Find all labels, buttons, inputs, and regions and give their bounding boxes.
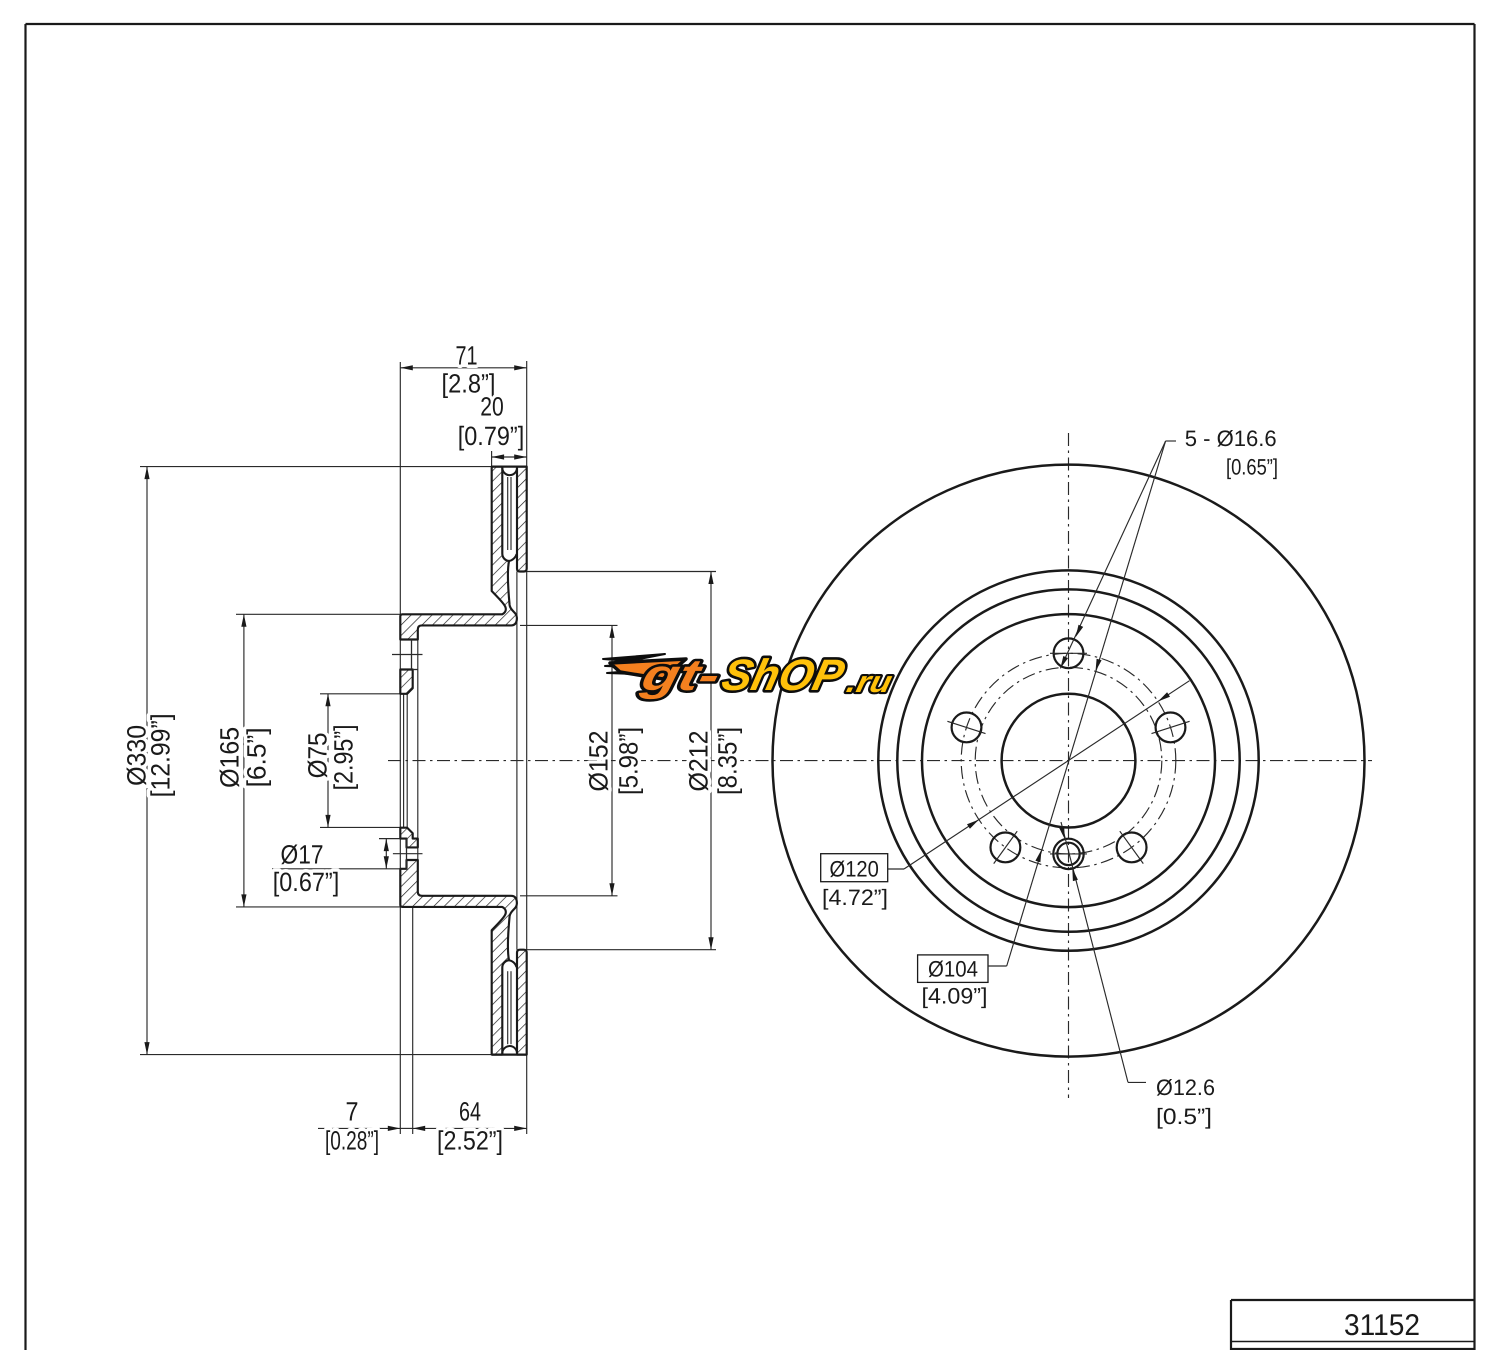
- svg-text:[12.99”]: [12.99”]: [145, 713, 175, 797]
- svg-text:[0.65”]: [0.65”]: [1226, 454, 1278, 479]
- svg-text:5 - Ø16.6: 5 - Ø16.6: [1185, 426, 1277, 451]
- svg-text:[8.35”]: [8.35”]: [712, 727, 742, 795]
- svg-text:Ø120: Ø120: [830, 857, 879, 882]
- svg-text:[0.5”]: [0.5”]: [1156, 1104, 1212, 1129]
- svg-text:[0.79”]: [0.79”]: [458, 421, 525, 451]
- svg-text:[5.98”]: [5.98”]: [613, 727, 643, 795]
- svg-text:Ø152: Ø152: [583, 731, 613, 792]
- svg-text:[4.72”]: [4.72”]: [822, 885, 888, 910]
- svg-text:Ø17: Ø17: [281, 839, 324, 869]
- svg-text:64: 64: [459, 1096, 481, 1126]
- svg-text:Ø12.6: Ø12.6: [1156, 1075, 1215, 1100]
- svg-text:31152: 31152: [1344, 1309, 1420, 1342]
- svg-text:ShOP: ShOP: [717, 651, 849, 700]
- svg-text:gt-: gt-: [636, 651, 725, 700]
- svg-text:[2.95”]: [2.95”]: [328, 724, 358, 790]
- svg-text:7: 7: [346, 1096, 359, 1126]
- svg-text:[4.09”]: [4.09”]: [922, 984, 988, 1009]
- svg-text:Ø104: Ø104: [928, 957, 978, 982]
- svg-text:Ø212: Ø212: [683, 731, 713, 792]
- svg-text:[2.52”]: [2.52”]: [437, 1125, 503, 1155]
- svg-text:71: 71: [456, 340, 478, 370]
- svg-text:20: 20: [480, 392, 504, 422]
- svg-text:[0.67”]: [0.67”]: [273, 867, 340, 897]
- svg-text:Ø165: Ø165: [214, 727, 244, 788]
- svg-text:.ru: .ru: [844, 666, 896, 699]
- svg-text:[6.5”]: [6.5”]: [241, 727, 271, 787]
- svg-text:[0.28”]: [0.28”]: [325, 1125, 379, 1155]
